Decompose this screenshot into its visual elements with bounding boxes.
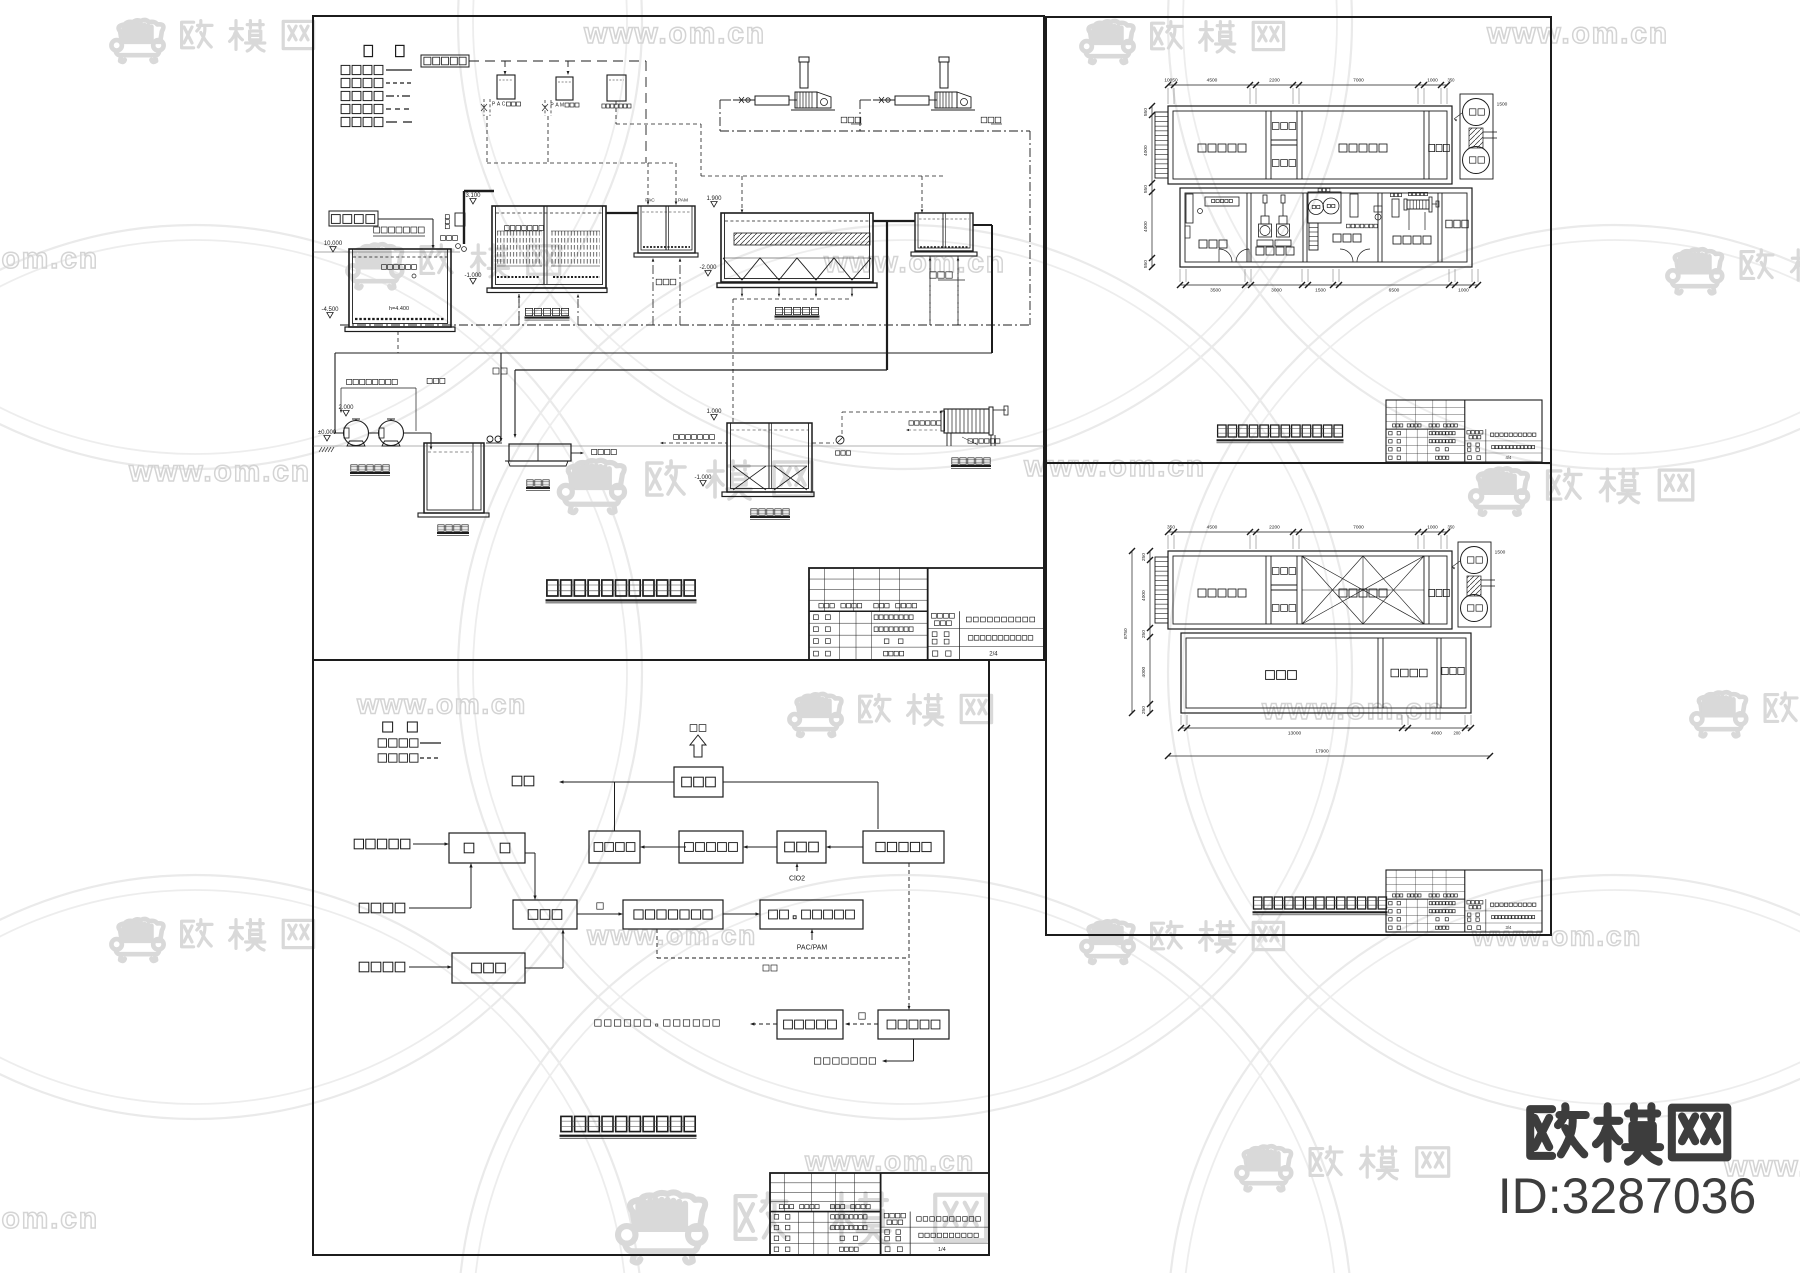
svg-text:-1.000: -1.000 [694,475,712,481]
svg-text:1000: 1000 [1458,288,1469,294]
panel 4 border: 废水处理工艺流程框图 [313,660,989,1255]
svg-text:4/4: 4/4 [1506,455,1512,460]
svg-text:350: 350 [1448,77,1456,82]
filter press 厢式压滤机 [944,409,989,433]
svg-text:www.om.cn: www.om.cn [583,17,766,50]
panel 4 title block [770,1173,989,1255]
svg-text:7000: 7000 [1353,525,1364,531]
box 市政自来水 + water feed line [421,55,469,67]
svg-text:250: 250 [1141,630,1147,638]
svg-text:13000: 13000 [1288,731,1302,737]
svg-text:www.om.cn: www.om.cn [356,689,527,720]
svg-text:1000: 1000 [1427,78,1438,84]
svg-text:250: 250 [1141,706,1147,714]
svg-text:PAC: PAC [645,198,655,204]
svg-text:350: 350 [1167,525,1175,531]
svg-text:200: 200 [1454,730,1462,735]
legend 图例 [364,45,372,56]
svg-text:2.000: 2.000 [338,405,354,411]
svg-text:10050: 10050 [1164,78,1178,84]
svg-text:1500: 1500 [1495,550,1506,556]
panel 3 border: 废水处理设施尺寸平面布置图 [1046,463,1551,935]
watermark layer: circles, sofa logos, www.om.cn [0,0,642,469]
svg-text:1500: 1500 [1497,102,1508,108]
svg-text:A: A [555,103,559,109]
panel 1 title block [809,568,1044,660]
svg-text:www.om.cn: www.om.cn [0,1202,99,1235]
tank 综合废水调节池 [374,227,380,233]
svg-text:www.om.cn: www.om.cn [804,1146,975,1177]
svg-text:3500: 3500 [1210,288,1221,294]
svg-text:www.om.cn: www.om.cn [586,920,757,951]
svg-text:4500: 4500 [1207,78,1218,84]
svg-text:2/4: 2/4 [989,652,998,658]
svg-text:3.100: 3.100 [465,193,481,199]
tank 排放口 [509,444,571,461]
svg-text:7000: 7000 [1353,78,1364,84]
svg-text:www.om.cn: www.om.cn [0,242,99,275]
svg-text:h=4.400: h=4.400 [389,306,409,312]
svg-text:2200: 2200 [1269,78,1280,84]
svg-text:1.000: 1.000 [706,409,722,415]
svg-text:M: M [560,103,564,109]
svg-text:-1.000: -1.000 [464,273,482,279]
big dark logo 欧模网 ID:3287036 [1530,1106,1727,1161]
tank 斜管沉淀池 [721,213,873,282]
svg-text:6500: 6500 [1389,288,1400,294]
panel 2 title [1218,425,1227,437]
svg-text:10.000: 10.000 [324,241,343,247]
svg-text:8750: 8750 [1123,628,1129,639]
panel 3 title [1254,897,1262,909]
tank 回用水池 [424,443,484,513]
panel 1 title [547,580,558,596]
svg-text:PAM: PAM [678,198,688,204]
tank 絮凝池 (PAC/PAM) [638,206,695,253]
svg-text:550: 550 [1143,108,1149,116]
svg-text:550: 550 [1143,185,1149,193]
inlet label 生活污水 [329,211,378,226]
svg-text:4000: 4000 [1141,590,1147,601]
svg-text:4000: 4000 [1143,221,1149,232]
svg-text:1000: 1000 [1427,525,1438,531]
svg-text:3000: 3000 [1271,288,1282,294]
svg-text:www.om.cn: www.om.cn [1486,17,1669,50]
svg-text:2200: 2200 [1269,525,1280,531]
svg-text:PAC/PAM: PAC/PAM [797,944,828,951]
blower units 鼓风机/回流泵 [733,99,755,101]
svg-text:ClO2: ClO2 [789,875,805,882]
svg-text:1500: 1500 [1315,288,1326,294]
svg-text:ID:3287036: ID:3287036 [1498,1168,1757,1224]
panel 1 border: 废水处理工艺流程系统图 [313,16,1044,660]
flowchart boxes [674,767,723,797]
svg-text:1.900: 1.900 [706,196,722,202]
svg-text:www.om.cn: www.om.cn [1023,450,1206,483]
svg-text:4000: 4000 [1143,145,1149,156]
svg-text:www.om.cn: www.om.cn [1471,921,1642,952]
svg-text:-2.000: -2.000 [699,265,717,271]
svg-text:A: A [497,102,501,108]
sand filters 砂碳过滤罐 [344,421,369,446]
tank 污泥浓缩池 [727,423,812,492]
svg-text:550: 550 [1143,260,1149,268]
svg-text:250: 250 [1141,553,1147,561]
tank 消毒池 [915,213,973,251]
svg-text:4000: 4000 [1431,731,1442,737]
svg-text:1/4: 1/4 [938,1247,946,1253]
svg-text:P: P [492,102,496,108]
svg-text:-4.500: -4.500 [321,307,339,313]
tank 生物接触氧化池 [492,206,606,288]
ground line [313,445,1044,447]
svg-text:4000: 4000 [1141,666,1147,677]
panel 2 border: 废水处理站设备平面布置图 [1046,17,1551,463]
svg-text:www.om.cn: www.om.cn [1261,693,1444,726]
svg-text:17900: 17900 [1315,749,1329,755]
svg-text:3/4: 3/4 [1506,925,1512,930]
svg-text:±0.000: ±0.000 [318,430,337,436]
svg-text:4500: 4500 [1207,525,1218,531]
svg-text:C: C [502,102,506,108]
svg-text:350: 350 [1448,524,1456,529]
panel 4 title [561,1116,572,1131]
svg-text:www.om.cn: www.om.cn [128,455,311,488]
